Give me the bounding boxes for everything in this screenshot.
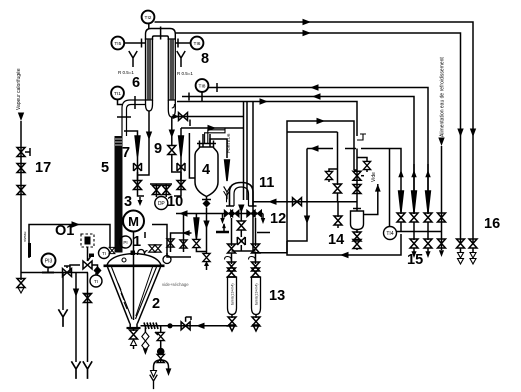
svg-text:8: 8 — [201, 51, 209, 67]
valve 13 right top — [252, 244, 260, 253]
svg-text:TI2: TI2 — [145, 15, 152, 21]
arrow down cooling water supply — [438, 138, 444, 147]
wire inner loop drop right — [337, 132, 339, 185]
instrument small circle b — [90, 273, 102, 287]
dip tube in cone — [136, 267, 153, 316]
valve trap outlet a — [353, 230, 361, 242]
check valve drop — [203, 214, 210, 271]
vent Y drain c — [83, 361, 92, 379]
arrow right on bypass top — [317, 118, 326, 124]
tick TI6 line — [177, 39, 179, 48]
wire O1 header — [29, 225, 110, 259]
right drain leg — [166, 367, 172, 376]
left drain leg — [150, 367, 158, 389]
wire dashed box drop — [87, 247, 89, 261]
wire column 13 right feed — [255, 218, 257, 246]
svg-text:13: 13 — [269, 288, 285, 304]
valve 15b lower — [410, 239, 418, 258]
svg-text:R 0.5=1: R 0.5=1 — [177, 71, 193, 76]
bell receiver 11 — [226, 183, 257, 207]
svg-text:2: 2 — [152, 296, 160, 312]
wire manifold top — [150, 183, 172, 185]
wire column 8 condensate down — [171, 117, 173, 145]
valve 17b — [17, 164, 25, 173]
wire col8 outlet header — [172, 116, 244, 118]
wire vessel 4 outlet to manifold — [206, 208, 208, 214]
valve V9c — [177, 172, 185, 190]
vessel 2 cone inner left — [112, 267, 133, 319]
valve cross 12b — [231, 210, 239, 217]
wire dome riser b — [183, 214, 185, 253]
svg-text:TI8: TI8 — [199, 83, 206, 89]
wire 9 to manifold — [174, 190, 181, 197]
T vent fitting — [216, 223, 229, 232]
vessel 2 rim — [104, 264, 165, 267]
arrow left on cross header — [268, 199, 277, 205]
svg-text:14: 14 — [328, 232, 344, 248]
arrow down bell outlet — [238, 205, 244, 214]
arrow down drain b — [73, 289, 79, 298]
cooling branch 15b — [410, 164, 418, 240]
svg-text:17: 17 — [35, 160, 51, 176]
svg-text:3: 3 — [124, 194, 132, 210]
instrument TI1 — [111, 87, 124, 105]
hook inside column 8 cap — [172, 104, 175, 108]
svg-text:4: 4 — [202, 162, 210, 178]
condenser column 6 bottom cap — [146, 100, 153, 111]
drain dash right — [257, 232, 270, 234]
vent Y column 6 — [129, 51, 137, 67]
dot junction on discharge — [167, 323, 172, 328]
jacketed line 5 (black bar) — [115, 136, 123, 253]
vessel 4 inlet from feed header — [205, 128, 225, 143]
wire line 7 branch — [124, 131, 138, 137]
wire drain b — [75, 273, 77, 363]
wire bell outlet down — [240, 206, 242, 221]
wire return line 2 — [182, 97, 414, 215]
arrow down condensate 8 — [169, 130, 175, 139]
vent Y drain b — [71, 361, 80, 379]
wire trap vent to vide — [364, 184, 378, 215]
valve column 13 right bottom — [252, 315, 260, 332]
wire TI4 manifold — [397, 231, 442, 233]
arrow on top line 1 — [303, 19, 312, 25]
arrow left dome riser a — [182, 230, 190, 236]
valve stack 13 right — [251, 262, 261, 277]
wire drop to valve 14a — [337, 202, 339, 217]
arrow right O1 header — [72, 221, 81, 227]
svg-text:DP: DP — [158, 201, 166, 207]
svg-text:TI6: TI6 — [194, 41, 201, 47]
svg-text:5: 5 — [101, 160, 109, 176]
valve trap line a — [353, 171, 364, 180]
needle on vessel 4 vent — [225, 160, 230, 181]
arrow right on feed header — [208, 125, 217, 131]
small square on dome — [131, 251, 136, 256]
valve on steam trap header — [63, 266, 72, 277]
symbol inside dashed box — [85, 237, 91, 245]
svg-text:TI5: TI5 — [114, 41, 121, 47]
valve cross with dot 12 — [237, 237, 245, 251]
arrow left on manifold — [179, 210, 188, 216]
instrument PI3 — [42, 254, 56, 273]
valve supply a — [438, 213, 446, 222]
valve stack 13 left — [227, 262, 237, 277]
drain dash left — [216, 232, 229, 234]
arrow down on right line 1 — [470, 129, 476, 138]
arrow drain right manifold — [261, 214, 265, 225]
arrow right col8 outlet — [173, 114, 180, 119]
wire cross header — [253, 201, 357, 203]
vessel 4 bottom nozzle — [202, 197, 211, 200]
curl column 13 right — [249, 257, 256, 262]
wire dome riser a — [171, 233, 192, 252]
valve 17c — [17, 186, 25, 195]
svg-text:PORTEUR: PORTEUR — [226, 133, 231, 153]
agitator motor M — [123, 211, 144, 232]
svg-text:TI1: TI1 — [114, 91, 121, 97]
vessel 4 neck — [197, 134, 216, 147]
column 13 left — [228, 277, 237, 315]
svg-text:TI: TI — [94, 279, 98, 284]
arrow left on discharge — [196, 323, 205, 329]
label 3 arrow small — [144, 232, 146, 238]
wire drop to vessel 4 wall — [189, 133, 195, 178]
svg-text:9: 9 — [154, 141, 162, 157]
valve on drop right — [334, 184, 342, 202]
condenser column 6 body — [146, 39, 153, 100]
column 13 right — [252, 277, 261, 315]
valve column 13 left bottom — [228, 315, 236, 332]
valve center 12 — [237, 221, 245, 237]
arrow down on right line 2 — [457, 129, 463, 138]
arrow down on x307 — [304, 216, 310, 225]
branch valve off trap line — [357, 158, 371, 173]
valve V10b — [162, 184, 170, 197]
drain manifold arcs — [154, 359, 169, 367]
valve on col8 outlet header — [179, 113, 188, 121]
svg-text:vide+séchage: vide+séchage — [162, 282, 189, 287]
svg-text:Vapeur calorifugée: Vapeur calorifugée — [16, 68, 22, 110]
svg-text:O1: O1 — [55, 223, 74, 239]
valve drain c — [84, 294, 92, 303]
wire condensate return line — [287, 234, 401, 255]
level glass on O1 drop — [28, 243, 31, 257]
condenser top U pipe — [146, 29, 176, 41]
wire bypass loop box — [253, 102, 354, 253]
arrow left on return line 2 — [312, 93, 321, 99]
valve trap line b — [353, 185, 361, 194]
svg-text:tamis(13+m4): tamis(13+m4) — [230, 284, 234, 306]
needle drain vessel4 area — [193, 214, 207, 252]
wire vapeur line — [20, 121, 22, 280]
instrument circle 1 — [120, 236, 132, 248]
wire top supply line 2 — [175, 33, 460, 243]
hose hatched on discharge — [144, 323, 158, 330]
manifold under vessels — [176, 213, 263, 215]
dashed instrument box — [81, 234, 94, 247]
instrument TI5 — [111, 37, 145, 50]
svg-text:M: M — [128, 214, 139, 229]
valve V7a — [134, 157, 142, 180]
svg-text:7: 7 — [122, 145, 130, 161]
diamond relief under cone — [142, 328, 149, 355]
svg-text:TI: TI — [102, 251, 106, 256]
instrument DP 10 — [155, 197, 168, 210]
pipe pair down to bell 11 — [244, 102, 248, 201]
svg-text:Alimentation eau de refroidiss: Alimentation eau de refroidissement — [440, 57, 446, 137]
valve pair on dome — [149, 245, 161, 252]
valve return line 2 — [457, 239, 465, 264]
small valve on dome left — [109, 247, 115, 253]
small circle near dome right — [163, 253, 171, 264]
instrument TI2 — [142, 11, 155, 29]
valve V9a — [168, 146, 181, 173]
wire 13 right — [255, 253, 257, 264]
bypass tee into trap line — [354, 169, 357, 171]
svg-text:6: 6 — [132, 75, 140, 91]
valve 13 left top — [228, 244, 236, 253]
tick TI5 line — [141, 39, 143, 48]
wire recirculation line — [307, 148, 333, 150]
vent Y bell — [224, 191, 230, 202]
hatch on cone left — [118, 283, 127, 309]
svg-text:PI3: PI3 — [45, 258, 53, 264]
drain branch under discharge — [155, 326, 165, 363]
condenser column 8 body — [168, 39, 175, 100]
wire to gauge manifold — [138, 190, 145, 197]
vessel 4 body — [195, 147, 218, 197]
svg-text:12: 12 — [270, 211, 286, 227]
curl column 13 left — [225, 257, 232, 262]
valve dome riser b — [180, 240, 187, 248]
valve V10a — [152, 184, 160, 197]
butterfly valve on discharge — [181, 317, 191, 330]
svg-text:Vide: Vide — [371, 172, 377, 182]
valve under cone — [130, 328, 138, 349]
arrow left on return line TI8 — [310, 84, 319, 90]
instrument TI4 — [384, 227, 397, 240]
arrow down condensate 6 — [146, 132, 152, 141]
wire steam trap header — [21, 272, 88, 274]
arrow on top line 2 — [303, 30, 312, 36]
instrument TI8 — [196, 79, 209, 101]
needle valve line 9 — [179, 136, 184, 157]
filled diamond fitting — [94, 266, 102, 275]
svg-text:1: 1 — [133, 234, 141, 250]
svg-text:tamis(13+m4): tamis(13+m4) — [254, 284, 258, 306]
tiny port circle on dome — [122, 258, 126, 262]
instrument small circle a — [99, 248, 110, 259]
instrument TI6 — [175, 37, 203, 50]
double hump flange on dome — [138, 250, 148, 256]
cooling branch 15a — [397, 164, 405, 232]
wire inner loop — [287, 131, 338, 133]
tick on top U pipe — [160, 27, 162, 40]
svg-text:TI4: TI4 — [386, 231, 393, 237]
arrow down vapeur — [18, 113, 24, 122]
svg-text:niveau: niveau — [23, 232, 27, 242]
trap vessel 14 — [351, 149, 364, 230]
small arrow label 3 — [138, 197, 143, 206]
dash stub recirculation — [345, 148, 356, 150]
valve V7b — [134, 172, 142, 190]
wire TI4 drop — [389, 149, 391, 227]
arrow right on vapour header — [260, 98, 269, 104]
wire column 6 condensate down — [138, 111, 150, 175]
vessel 4 vent line — [210, 139, 227, 158]
needle valve line 7 — [135, 136, 140, 157]
wire split to columns 13 — [232, 250, 256, 252]
wire valve cluster — [70, 265, 80, 273]
wire feed header to receiver — [181, 127, 244, 129]
valve 15c lower — [424, 239, 432, 258]
pipe column 6 outlet to jacketed line — [122, 100, 146, 136]
vent Y vessel 4 — [224, 186, 231, 199]
wire drain a — [62, 273, 64, 311]
arrow up vide — [375, 184, 381, 192]
svg-text:11: 11 — [259, 175, 274, 191]
wire cooling water supply — [441, 146, 443, 250]
wire line 9 branch — [180, 128, 182, 137]
valve cross 12d — [253, 210, 261, 217]
vessel 2 cone outer left — [108, 267, 130, 324]
vessel 2 cone inner right — [136, 267, 157, 319]
arrow left on recirculation — [310, 145, 319, 151]
fitting on trap line — [357, 134, 366, 140]
wire column 13 left feed — [231, 218, 233, 246]
valve vapeur drain — [17, 279, 25, 294]
valve return line 1 — [469, 239, 477, 264]
vessel 2 bottom nozzle — [127, 324, 141, 329]
valve supply b — [438, 239, 446, 257]
valve cross 12c — [247, 210, 255, 217]
wire 13 left — [231, 253, 233, 264]
wire cone discharge — [141, 325, 233, 327]
tick on return line 2 — [188, 93, 190, 101]
wire vide collector — [361, 149, 401, 165]
wire drain c — [87, 273, 89, 363]
gauge manifold 10 — [144, 184, 172, 196]
valve stub branch — [325, 169, 337, 182]
valve cross 12a — [224, 210, 232, 217]
valve on cross header — [293, 198, 302, 206]
wire Z path left — [152, 225, 191, 258]
arrow drain left manifold — [220, 214, 224, 225]
tick on down pipe — [117, 116, 131, 118]
valve with actuator — [83, 254, 94, 270]
arrow left condensate return — [340, 252, 349, 258]
wire vapour header to trap — [177, 102, 357, 137]
condenser column 8 bottom cap — [168, 100, 175, 117]
cooling branch 15c — [424, 164, 432, 240]
valve 17a — [17, 148, 30, 157]
vent Y column 8 — [177, 51, 185, 67]
valve V9b — [177, 157, 185, 180]
vessel 2 cone outer right — [137, 267, 160, 324]
wire return line TI8 — [208, 88, 428, 215]
svg-text:10: 10 — [167, 194, 183, 210]
tick on TI8 line — [216, 83, 218, 92]
dash stub near column 8 — [189, 120, 191, 127]
valve trap outlet b — [353, 240, 361, 251]
svg-text:PI: PI — [123, 240, 127, 245]
valve dome riser a — [167, 239, 174, 247]
wire descent line x307 — [287, 149, 307, 242]
valve 14a — [334, 216, 342, 228]
svg-text:16: 16 — [484, 216, 500, 232]
wire diamond stub — [92, 265, 98, 267]
agitator shaft — [133, 232, 135, 321]
vent Y drain a — [58, 309, 67, 327]
tick on outlet pipe — [134, 96, 136, 109]
wire top supply line 1 — [155, 22, 474, 243]
vessel 2 dome — [107, 254, 161, 266]
valve diamond vessel 4 outlet — [203, 200, 211, 208]
